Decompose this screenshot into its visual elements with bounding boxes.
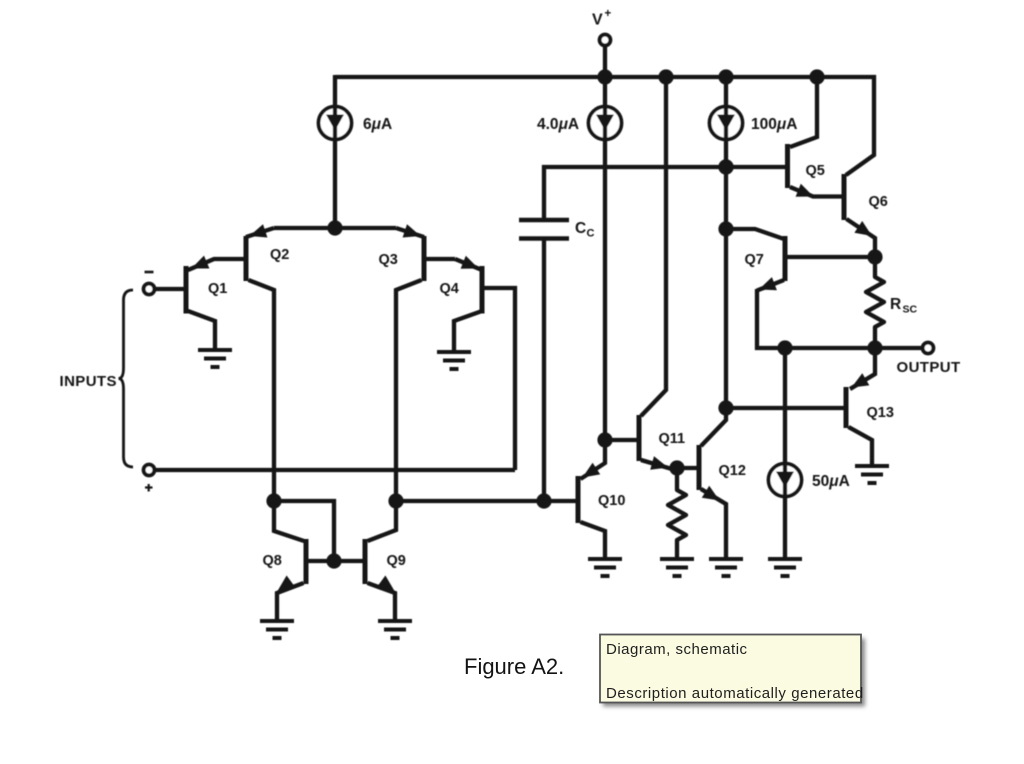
svg-text:Q10: Q10 (598, 493, 625, 509)
svg-text:Q12: Q12 (719, 463, 746, 479)
svg-text:Description automatically gene: Description automatically generated (606, 685, 864, 702)
svg-text:Q8: Q8 (263, 553, 282, 569)
svg-text:R: R (890, 296, 901, 313)
svg-text:OUTPUT: OUTPUT (897, 359, 961, 376)
svg-text:100μA: 100μA (751, 116, 797, 133)
svg-text:Q3: Q3 (379, 252, 398, 268)
svg-text:V: V (592, 12, 603, 29)
svg-text:Q11: Q11 (659, 431, 686, 447)
svg-text:Q9: Q9 (387, 553, 406, 569)
svg-text:Q7: Q7 (745, 252, 764, 268)
svg-text:SC: SC (903, 304, 918, 316)
svg-text:6μA: 6μA (363, 116, 392, 133)
svg-text:Q13: Q13 (867, 405, 894, 421)
svg-text:Q1: Q1 (208, 281, 227, 297)
svg-text:INPUTS: INPUTS (60, 373, 117, 390)
svg-text:+: + (605, 8, 612, 20)
svg-text:C: C (575, 220, 586, 237)
svg-text:Figure A2.: Figure A2. (464, 654, 564, 679)
svg-text:Q2: Q2 (270, 247, 289, 263)
svg-text:Q5: Q5 (806, 163, 825, 179)
svg-text:Q4: Q4 (440, 281, 459, 297)
svg-text:Q6: Q6 (869, 194, 888, 210)
svg-text:4.0μA: 4.0μA (537, 116, 579, 133)
svg-text:50μA: 50μA (812, 473, 850, 490)
svg-text:C: C (587, 228, 595, 240)
svg-text:Diagram, schematic: Diagram, schematic (606, 641, 748, 658)
